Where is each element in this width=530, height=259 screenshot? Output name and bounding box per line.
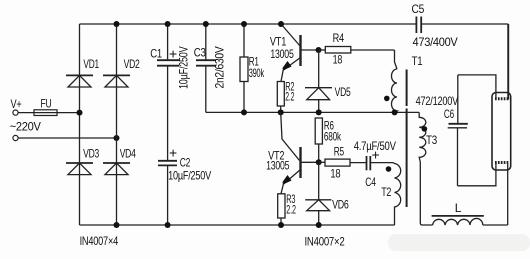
svg-text:473/400V: 473/400V <box>413 35 458 49</box>
svg-text:472/1200V: 472/1200V <box>416 94 459 108</box>
svg-text:390k: 390k <box>249 66 265 80</box>
lamp filament top <box>495 24 509 99</box>
wire right edge to lamp <box>507 24 509 100</box>
node VD4 bottom <box>114 222 120 228</box>
node VT1 base <box>316 47 322 53</box>
svg-text:C6: C6 <box>444 107 454 121</box>
svg-text:~220V: ~220V <box>10 120 41 134</box>
svg-text:18: 18 <box>330 167 340 181</box>
svg-text:C5: C5 <box>412 2 425 16</box>
node VD2 top <box>114 21 120 27</box>
wire 220V to VD2 column <box>18 137 116 139</box>
node R1 top <box>241 21 247 27</box>
svg-text:2n2/630V: 2n2/630V <box>213 46 227 88</box>
wire top rail <box>80 23 417 25</box>
transformer T3 winding <box>419 112 437 225</box>
wire VD2 column <box>116 24 118 225</box>
svg-text:C2: C2 <box>180 156 191 170</box>
node VT2 base <box>316 159 322 165</box>
transistor VT2 <box>266 112 319 193</box>
node R2 mid-rail <box>278 109 284 115</box>
node VT1 collector top <box>278 21 284 27</box>
phase dot T2 <box>386 166 392 172</box>
node R3 bottom <box>278 222 284 228</box>
phase dot T1 <box>384 96 390 102</box>
svg-text:C4: C4 <box>365 175 376 189</box>
svg-text:T3: T3 <box>426 133 438 147</box>
svg-text:VD4: VD4 <box>120 146 136 160</box>
wire C6 top to lamp <box>458 75 496 99</box>
diode VD3 <box>66 146 100 174</box>
capacitor C5 <box>412 2 458 49</box>
svg-text:VD3: VD3 <box>83 146 99 160</box>
svg-text:L: L <box>455 201 462 215</box>
wire left edge <box>79 24 81 225</box>
node R1 mid-rail <box>241 109 247 115</box>
capacitor C2 <box>158 145 211 226</box>
svg-text:VD6: VD6 <box>332 198 349 212</box>
capacitor C6 <box>444 75 468 186</box>
lamp tube <box>492 93 511 171</box>
inductor L <box>432 201 508 225</box>
wire mid rail <box>206 111 419 113</box>
transformer T2 winding <box>381 163 400 225</box>
phase dot T3 <box>422 126 428 132</box>
diode VD5 <box>305 50 351 112</box>
resistor R1 <box>240 24 265 112</box>
svg-text:VD2: VD2 <box>124 57 140 71</box>
svg-text:VD5: VD5 <box>335 85 351 99</box>
svg-text:C1: C1 <box>150 46 162 60</box>
svg-text:2.2: 2.2 <box>285 90 294 104</box>
node C3 top <box>203 21 209 27</box>
node C2 bottom <box>165 222 171 228</box>
transistor VT1 <box>270 24 319 82</box>
resistor R3 <box>278 192 296 225</box>
svg-text:IN4007×4: IN4007×4 <box>80 234 119 248</box>
svg-text:2.2: 2.2 <box>286 203 296 217</box>
svg-text:VD1: VD1 <box>83 57 99 71</box>
node VD5 mid-rail <box>316 109 322 115</box>
svg-text:R4: R4 <box>333 31 345 45</box>
node FU-VD1 junction <box>77 110 83 116</box>
svg-text:680k: 680k <box>324 130 342 144</box>
terminal ~220V <box>13 135 18 140</box>
svg-text:+: + <box>169 145 177 161</box>
svg-text:T2: T2 <box>381 185 391 199</box>
capacitor C1 <box>150 24 190 160</box>
capacitor C3 <box>194 24 227 112</box>
svg-text:C3: C3 <box>194 46 206 60</box>
resistor R2 <box>277 79 294 112</box>
wire C6 bottom to lamp <box>458 164 496 186</box>
wire R4 to T1 <box>395 50 398 69</box>
wire bottom rail <box>80 224 395 226</box>
svg-text:IN4007×2: IN4007×2 <box>305 235 345 249</box>
svg-text:18: 18 <box>333 53 343 67</box>
lamp filament bottom <box>495 163 509 226</box>
resistor R4 <box>319 31 395 67</box>
svg-text:R5: R5 <box>334 145 345 159</box>
svg-text:13005: 13005 <box>270 47 294 61</box>
svg-text:10µF/250V: 10µF/250V <box>168 169 211 183</box>
diode VD1 <box>66 57 99 87</box>
transformer T1 winding <box>392 54 423 112</box>
capacitor C4 <box>354 139 396 189</box>
resistor R6 <box>315 118 342 162</box>
node 220V junction <box>114 135 120 141</box>
node T1 bottom <box>392 109 398 115</box>
svg-text:+: + <box>372 147 380 163</box>
transformer core <box>406 70 408 107</box>
fuse FU <box>18 112 79 114</box>
diode VD4 <box>103 146 136 174</box>
svg-text:FU: FU <box>41 97 52 111</box>
node VD6 bottom <box>316 222 322 228</box>
svg-text:10µF/250V: 10µF/250V <box>177 46 191 89</box>
svg-text:V+: V+ <box>11 97 22 111</box>
svg-text:T1: T1 <box>412 54 423 68</box>
terminal V+ <box>13 110 18 115</box>
diode VD6 <box>305 162 349 225</box>
node C1 top <box>165 21 171 27</box>
svg-text:13005: 13005 <box>266 159 290 173</box>
resistor R5 <box>319 145 367 181</box>
diode VD2 <box>103 57 140 87</box>
